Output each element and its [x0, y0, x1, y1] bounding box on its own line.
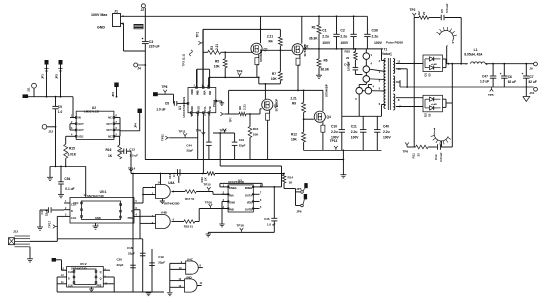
svg-text:R7: R7 — [272, 72, 276, 76]
svg-text:C3: C3 — [149, 40, 153, 44]
svg-text:82 uF: 82 uF — [529, 80, 537, 84]
svg-text:JP6: JP6 — [296, 209, 302, 213]
svg-text:22pF: 22pF — [186, 148, 193, 152]
svg-text:OUT: OUT — [78, 128, 84, 132]
svg-text:1.0 uF: 1.0 uF — [267, 222, 276, 226]
svg-text:R14: R14 — [288, 176, 294, 180]
svg-text:R8: R8 — [238, 106, 242, 110]
svg-text:1: 1 — [371, 53, 373, 57]
svg-text:1.0 uF: 1.0 uF — [156, 108, 165, 112]
svg-text:0.1: 0.1 — [172, 173, 176, 177]
svg-text:TP10: TP10 — [220, 128, 227, 132]
svg-text:C20: C20 — [117, 258, 123, 262]
svg-text:U5:2: U5:2 — [80, 262, 87, 266]
svg-text:C18: C18 — [127, 246, 133, 250]
svg-text:6: 6 — [260, 198, 262, 202]
svg-text:2: 2 — [194, 85, 196, 87]
svg-text:Q: Q — [100, 278, 102, 281]
svg-text:C13: C13 — [129, 148, 135, 152]
svg-text:10K: 10K — [271, 77, 278, 81]
svg-text:TP6: TP6 — [162, 85, 168, 89]
svg-text:8.95uH, 42A: 8.95uH, 42A — [464, 53, 483, 57]
svg-text:ADJ: ADJ — [78, 135, 84, 139]
svg-text:R11: R11 — [412, 153, 416, 159]
svg-text:R18 51: R18 51 — [184, 225, 194, 229]
svg-text:TP16: TP16 — [205, 200, 213, 204]
svg-text:GND: GND — [95, 216, 101, 220]
svg-text:2.2u: 2.2u — [340, 35, 347, 39]
svg-text:C9: C9 — [58, 105, 62, 109]
svg-text:SI7846DP: SI7846DP — [303, 44, 307, 57]
svg-text:OUT: OUT — [106, 128, 112, 132]
svg-text:20: 20 — [422, 11, 426, 15]
svg-text:0.1 uF: 0.1 uF — [65, 187, 74, 191]
svg-text:7: 7 — [260, 191, 262, 195]
svg-text:100V: 100V — [351, 136, 360, 140]
svg-text:100V: 100V — [322, 41, 331, 45]
svg-text:CLR: CLR — [71, 203, 76, 207]
svg-text:ENBA: ENBA — [229, 186, 236, 190]
svg-text:OUT: OUT — [78, 122, 84, 126]
svg-text:J12: J12 — [48, 130, 53, 134]
svg-text:22pF: 22pF — [158, 261, 165, 265]
svg-text:2.21: 2.21 — [215, 44, 219, 50]
svg-text:ENBB: ENBB — [245, 186, 252, 190]
svg-text:TP12: TP12 — [179, 129, 186, 133]
svg-text:TP8: TP8 — [403, 150, 409, 154]
svg-text:+: + — [486, 62, 488, 66]
svg-text:SI7846DP: SI7846DP — [274, 99, 278, 112]
svg-text:2.2u: 2.2u — [351, 130, 358, 134]
svg-text:2: 2 — [379, 59, 381, 63]
svg-text:GND: GND — [190, 106, 194, 112]
svg-text:C10: C10 — [331, 125, 337, 129]
svg-text:OUTA: OUTA — [245, 193, 252, 197]
svg-text:Q4: Q4 — [327, 115, 331, 119]
svg-text:IN: IN — [78, 116, 81, 120]
svg-text:PRE: PRE — [97, 284, 102, 287]
svg-text:100V Max: 100V Max — [91, 13, 107, 17]
svg-text:2.2u: 2.2u — [322, 35, 329, 39]
svg-text:2.2u: 2.2u — [331, 130, 338, 134]
svg-text:JP2: JP2 — [55, 74, 59, 79]
svg-text:05: 05 — [428, 73, 432, 77]
svg-text:JP4: JP4 — [133, 123, 137, 128]
svg-text:6: 6 — [379, 102, 381, 106]
svg-text:100V: 100V — [374, 41, 383, 45]
svg-text:7: 7 — [97, 225, 99, 228]
svg-text:TP15: TP15 — [203, 183, 211, 187]
svg-text:5: 5 — [379, 87, 381, 91]
svg-text:1.0 uF: 1.0 uF — [480, 80, 489, 84]
svg-text:D: D — [71, 209, 73, 213]
svg-text:eLAB: eLAB — [431, 103, 437, 106]
svg-text:6: 6 — [204, 115, 206, 117]
svg-text:U4C: U4C — [187, 258, 194, 262]
svg-text:3: 3 — [355, 97, 357, 101]
svg-text:SN74HC74D: SN74HC74D — [71, 266, 87, 270]
svg-text:SN74HC74D: SN74HC74D — [87, 194, 104, 198]
svg-text:36.3K: 36.3K — [309, 37, 318, 41]
svg-text:CLK: CLK — [71, 216, 76, 220]
svg-text:TP2: TP2 — [410, 8, 416, 12]
svg-text:1.0: 1.0 — [58, 110, 63, 114]
svg-text:R9: R9 — [292, 102, 296, 106]
svg-text:J2: J2 — [141, 8, 145, 12]
svg-text:11: 11 — [397, 60, 400, 64]
svg-text:TP4: TP4 — [237, 69, 243, 73]
svg-text:J4: J4 — [137, 67, 141, 71]
svg-text:C6: C6 — [508, 75, 512, 79]
svg-text:C1: C1 — [322, 29, 326, 33]
svg-text:OUT: OUT — [106, 122, 112, 126]
svg-text:C44: C44 — [186, 143, 192, 147]
svg-text:R10: R10 — [253, 127, 259, 131]
svg-text:IN2: IN2 — [208, 90, 212, 95]
svg-text:T1: T1 — [384, 48, 388, 52]
svg-text:R4: R4 — [269, 40, 273, 44]
svg-text:8: 8 — [398, 98, 400, 102]
svg-text:R16: R16 — [106, 148, 112, 152]
svg-text:GND: GND — [97, 26, 105, 30]
svg-text:4: 4 — [373, 85, 375, 89]
svg-text:CLK: CLK — [68, 284, 73, 287]
svg-text:SN74HC08D: SN74HC08D — [164, 202, 180, 206]
svg-text:INB: INB — [229, 208, 234, 212]
svg-text:U4A: U4A — [168, 181, 175, 185]
svg-text:C12: C12 — [434, 154, 438, 160]
svg-text:R12: R12 — [291, 133, 297, 137]
svg-text:22pF: 22pF — [128, 252, 135, 256]
svg-text:3.01K: 3.01K — [68, 153, 77, 157]
svg-text:C2: C2 — [340, 29, 344, 33]
svg-text:22pF: 22pF — [117, 263, 124, 267]
svg-text:10K: 10K — [291, 138, 298, 142]
svg-text:C16: C16 — [264, 217, 270, 221]
svg-text:J13: J13 — [13, 230, 18, 234]
svg-text:JP1: JP1 — [41, 74, 45, 79]
svg-text:INA: INA — [202, 90, 206, 95]
svg-text:NC: NC — [108, 135, 112, 139]
svg-text:C7: C7 — [530, 75, 534, 79]
svg-text:TP5: TP5 — [488, 93, 494, 97]
svg-text:22pF: 22pF — [45, 209, 49, 216]
svg-text:J11: J11 — [27, 87, 31, 92]
svg-text:R5: R5 — [215, 60, 219, 64]
svg-text:TP9: TP9 — [196, 129, 202, 133]
svg-text:TP7: TP7 — [229, 117, 233, 123]
svg-text:36.3K: 36.3K — [321, 67, 330, 71]
svg-text:eLAB: eLAB — [431, 63, 437, 66]
svg-text:4: 4 — [371, 62, 373, 66]
svg-text:C43: C43 — [239, 138, 245, 142]
svg-text:TP3 (1:1): TP3 (1:1) — [182, 54, 186, 67]
svg-text:C47: C47 — [482, 74, 488, 78]
svg-text:J10: J10 — [529, 91, 534, 95]
svg-text:R3: R3 — [210, 46, 214, 50]
svg-text:OTB: OTB — [208, 106, 212, 112]
svg-text:[Value]: [Value] — [381, 52, 391, 56]
svg-text:R35: R35 — [345, 50, 351, 54]
svg-text:0.01uF: 0.01uF — [439, 152, 443, 162]
svg-text:1K: 1K — [108, 154, 113, 158]
svg-text:C8: C8 — [165, 102, 169, 106]
svg-text:Q: Q — [100, 271, 102, 274]
svg-text:C54: C54 — [64, 177, 70, 181]
svg-text:3: 3 — [192, 115, 194, 117]
svg-text:R15: R15 — [69, 147, 75, 151]
svg-text:R1: R1 — [312, 26, 316, 30]
svg-text:TP17: TP17 — [48, 220, 52, 228]
svg-text:TP18: TP18 — [237, 223, 245, 227]
svg-text:INB: INB — [196, 90, 200, 95]
svg-text:U4B: U4B — [161, 211, 168, 215]
svg-text:0.01uF: 0.01uF — [445, 3, 449, 13]
svg-text:2.21: 2.21 — [243, 104, 247, 110]
svg-text:L1: L1 — [474, 48, 478, 52]
svg-text:C5: C5 — [440, 9, 444, 13]
svg-text:10K: 10K — [253, 133, 259, 137]
svg-text:TP14: TP14 — [128, 167, 136, 171]
svg-text:220 uF: 220 uF — [149, 45, 160, 49]
svg-text:LM317LCD: LM317LCD — [84, 110, 99, 114]
svg-text:100V: 100V — [340, 41, 349, 45]
svg-text:JP5: JP5 — [296, 187, 302, 191]
svg-text:+: + — [500, 72, 502, 76]
svg-text:J9: J9 — [529, 67, 533, 71]
svg-text:C19: C19 — [158, 255, 164, 259]
svg-text:2.2u: 2.2u — [372, 35, 379, 39]
svg-text:R17 51: R17 51 — [185, 197, 195, 201]
svg-text:C11: C11 — [351, 125, 357, 129]
svg-text:20: 20 — [346, 56, 350, 60]
svg-text:R2: R2 — [417, 11, 421, 15]
svg-text:OUTB: OUTB — [245, 208, 252, 212]
svg-text:1K: 1K — [289, 181, 294, 185]
svg-text:8: 8 — [200, 263, 202, 267]
svg-text:Pulse P8208: Pulse P8208 — [386, 41, 403, 45]
svg-text:D: D — [68, 278, 70, 281]
svg-text:U4D: U4D — [186, 275, 193, 279]
svg-text:AGD: AGD — [197, 106, 201, 112]
svg-text:11: 11 — [200, 281, 203, 285]
svg-text:7: 7 — [160, 200, 162, 204]
svg-text:C17: C17 — [40, 209, 44, 215]
svg-text:22pF: 22pF — [239, 144, 246, 148]
svg-text:1K: 1K — [204, 176, 208, 181]
svg-text:UCC37324DGN: UCC37324DGN — [182, 97, 186, 118]
svg-text:OTA: OTA — [203, 106, 207, 111]
svg-text:TP13: TP13 — [330, 139, 338, 143]
svg-text:2.21: 2.21 — [291, 97, 297, 101]
svg-text:NC: NC — [108, 116, 112, 120]
svg-text:2.21: 2.21 — [267, 35, 273, 39]
svg-text:R6: R6 — [324, 59, 328, 63]
svg-text:VDD: VDD — [247, 201, 253, 205]
svg-text:INA: INA — [229, 193, 234, 197]
svg-text:2.2u: 2.2u — [383, 130, 390, 134]
svg-text:10K: 10K — [214, 65, 221, 69]
svg-text:CLR: CLR — [68, 271, 73, 274]
svg-text:GND: GND — [229, 201, 235, 205]
svg-text:5: 5 — [260, 205, 262, 209]
svg-text:Q: Q — [120, 203, 122, 207]
svg-text:VDD: VDD — [190, 89, 194, 95]
svg-text:PGnd: PGnd — [212, 100, 216, 107]
svg-text:C40: C40 — [383, 125, 389, 129]
svg-text:82 uF: 82 uF — [508, 80, 516, 84]
svg-text:1500pF: 1500pF — [347, 61, 351, 71]
svg-text:TP11: TP11 — [161, 134, 165, 141]
svg-text:C39: C39 — [372, 29, 378, 33]
svg-text:SI7846DP: SI7846DP — [259, 49, 263, 62]
svg-text:05: 05 — [428, 113, 432, 117]
svg-text:100V: 100V — [383, 136, 392, 140]
svg-text:TP1: TP1 — [196, 31, 200, 37]
svg-text:J1: J1 — [114, 10, 118, 14]
svg-text:20: 20 — [417, 153, 421, 157]
svg-text:JP3: JP3 — [111, 92, 115, 97]
svg-text:+: + — [522, 72, 524, 76]
svg-text:SI7846DP: SI7846DP — [325, 84, 329, 97]
svg-text:PRE: PRE — [128, 216, 134, 220]
